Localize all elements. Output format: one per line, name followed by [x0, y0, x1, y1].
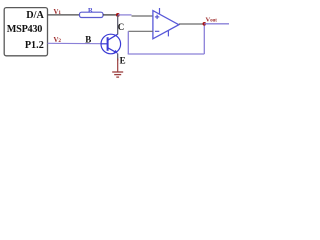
label R — [88, 7, 93, 14]
label E (emitter) — [120, 55, 126, 65]
svg-text:V2: V2 — [54, 37, 62, 44]
label MSP430 — [7, 24, 42, 35]
svg-text:MSP430: MSP430 — [7, 24, 42, 35]
op-amp U1 — [153, 8, 179, 39]
wire: inverting input (to feedback) — [128, 30, 153, 32]
wire: op-amp output to node Vout — [179, 23, 205, 25]
svg-text:P1.2: P1.2 — [25, 40, 44, 51]
svg-text:R: R — [88, 7, 93, 14]
svg-text:Vout: Vout — [206, 17, 218, 24]
svg-text:V1: V1 — [54, 9, 62, 16]
label C (collector) — [118, 22, 125, 32]
feedback wire: output to inverting input — [128, 24, 205, 54]
node A junction (collector tie) — [116, 13, 120, 17]
transistor Q1 (NPN) — [101, 34, 121, 54]
label D/A — [26, 10, 44, 21]
resistor R — [80, 12, 104, 17]
net label Vout — [206, 17, 218, 24]
svg-text:E: E — [120, 55, 126, 65]
svg-text:C: C — [118, 22, 125, 32]
wire: collector up to node A — [117, 15, 119, 34]
net label V1 — [54, 9, 62, 16]
label P1.2 — [25, 40, 44, 51]
wire: resistor to node A — [103, 14, 118, 16]
wire V1: box to resistor R — [48, 14, 80, 16]
ground — [112, 59, 123, 78]
svg-text:D/A: D/A — [26, 10, 44, 21]
svg-text:B: B — [85, 35, 91, 45]
net label V2 — [54, 37, 62, 44]
wire: node Vout to right edge — [204, 23, 229, 25]
wire: emitter down to ground — [117, 54, 119, 61]
label B (base) — [85, 35, 91, 45]
D/A converter block (MSP430) — [4, 8, 47, 56]
wire: node A to op-amp non-inverting input — [118, 15, 153, 16]
node Vout junction — [203, 22, 207, 26]
wire V2: box to transistor base — [48, 42, 102, 44]
